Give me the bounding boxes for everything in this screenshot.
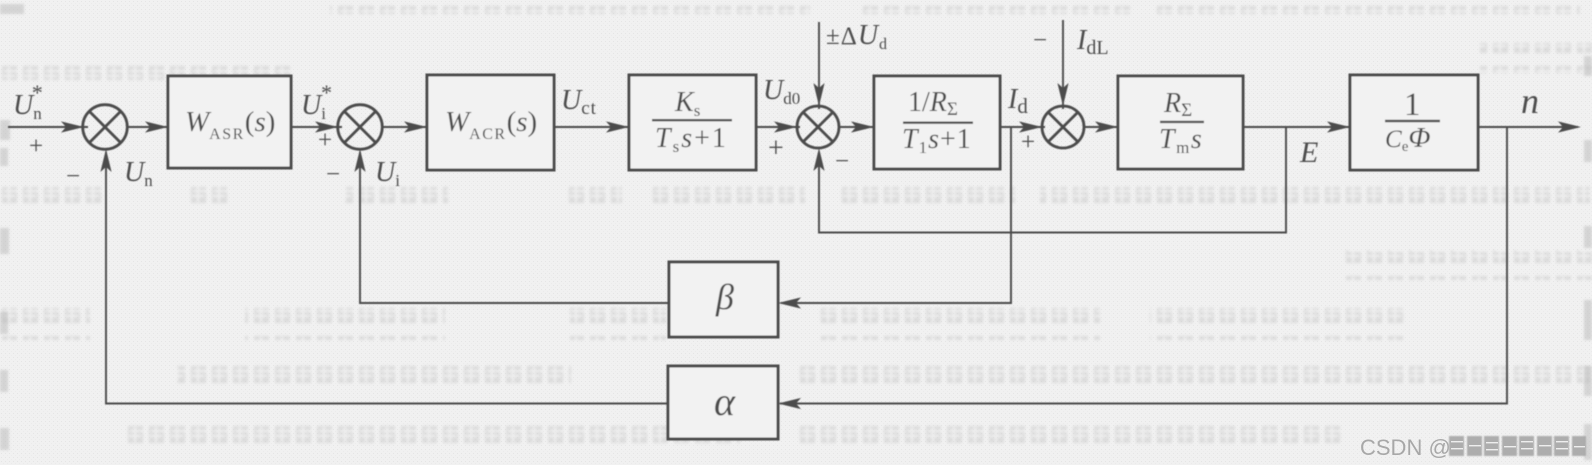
svg-text:α: α (714, 379, 736, 424)
svg-text:T1s+1: T1s+1 (902, 124, 972, 157)
wire: 1/Rsigma block to summing junction 4 (1000, 126, 1045, 128)
svg-text:CeΦ: CeΦ (1385, 122, 1430, 155)
arrowhead: into Ks block (606, 121, 629, 132)
wire: alpha output to summing junction 1 (106, 152, 668, 404)
wire: beta output to summing junction 2 (360, 152, 669, 303)
wire: E feedback drop (819, 127, 1286, 233)
fraction bar Ks block (652, 119, 732, 121)
wire: summing junction 2 to W_ACR (382, 126, 429, 128)
block 1/(CePhi) (1350, 75, 1478, 170)
fraction bar Rsigma block (1160, 121, 1204, 123)
svg-text:+: + (768, 133, 784, 164)
arrowhead: beta output up into summing junction 2 (354, 149, 365, 172)
arrowhead: into alpha block (778, 398, 801, 409)
wire: n feedback drop to alpha (780, 127, 1507, 404)
wire: disturbance dUd drop into summing junction 3 (818, 22, 820, 109)
svg-text:±ΔUd: ±ΔUd (826, 20, 888, 53)
block alpha (668, 366, 778, 439)
wire: Ks block to summing junction 3 (756, 126, 800, 128)
svg-text:CSDN @: CSDN @ (1360, 435, 1451, 460)
arrowhead: dUd down into summing junction 3 (813, 83, 824, 106)
wire: Rsigma/Tms block to 1/CePhi block (E node) (1243, 126, 1352, 128)
wire: W_ACR to Ks block (554, 126, 631, 128)
arrowhead: into summing junction 2 (315, 121, 338, 132)
block Rsigma/(Tms) (1118, 76, 1243, 169)
left margin cut glyphs (0, 120, 10, 140)
svg-text:+: + (29, 133, 43, 160)
arrowhead: IdL down into summing junction 4 (1057, 83, 1068, 106)
wire: load current IdL drop into summing junction 4 (1062, 20, 1064, 109)
summing junction 2 (338, 105, 383, 150)
arrowhead: into Rsigma/Tms block (1095, 121, 1118, 132)
arrowhead: into 1/CePhi block (1327, 121, 1350, 132)
arrowhead: E feedback up into summing junction 3 (813, 148, 824, 171)
fraction bar 1/Rsigma block (903, 122, 973, 124)
block W_ACR(s) (427, 75, 554, 170)
wire: summing junction 3 to 1/Rsigma block (839, 126, 876, 128)
wire: W_ASR to summing junction 2 (291, 126, 342, 128)
wire: summing junction 4 to Rsigma/Tms block (1084, 126, 1120, 128)
summing junction 3 (797, 106, 839, 148)
svg-text:Tss+1: Tss+1 (655, 123, 728, 156)
svg-text:−: − (326, 161, 340, 188)
arrowhead: into W_ACR (404, 121, 427, 132)
arrowhead: into beta block (778, 297, 801, 308)
svg-text:−: − (835, 148, 849, 175)
svg-text:1: 1 (1404, 87, 1421, 123)
arrowhead: alpha output up into summing junction 1 (100, 149, 111, 172)
svg-text:−: − (66, 163, 80, 190)
right margin cut glyphs (1584, 56, 1592, 76)
arrowhead: into summing junction 1 (61, 121, 84, 132)
svg-text:−: − (1033, 27, 1047, 54)
wire: Id feedback drop to beta (781, 127, 1011, 303)
block W_ASR(s) (168, 76, 291, 168)
top-left corner mark (0, 4, 24, 14)
block 1/Rsigma/(T1s+1) (874, 76, 1000, 169)
watermark CSDN (1360, 435, 1586, 460)
arrowhead: into summing junction 4 (1019, 121, 1042, 132)
arrowhead: into W_ASR (145, 121, 168, 132)
svg-text:β: β (715, 277, 734, 317)
wire: summing junction 1 to W_ASR (128, 126, 170, 128)
block beta (669, 262, 778, 337)
arrowhead: into summing junction 3 (774, 121, 797, 132)
svg-text:n: n (1521, 81, 1539, 121)
svg-text:E: E (1299, 136, 1318, 169)
arrowhead: output n (1558, 121, 1581, 132)
fraction bar CePhi block (1385, 120, 1440, 122)
arrowhead: into 1/Rsigma block (851, 121, 874, 132)
wire: input Un* to summing junction 1 (8, 126, 88, 128)
wire: 1/CePhi block to output n (1478, 126, 1578, 128)
summing junction 1 (83, 105, 128, 150)
block Ks/(Tss+1) (629, 75, 756, 170)
svg-text:+: + (318, 127, 332, 154)
svg-text:+: + (1021, 129, 1035, 156)
summing junction 4 (1042, 106, 1084, 148)
